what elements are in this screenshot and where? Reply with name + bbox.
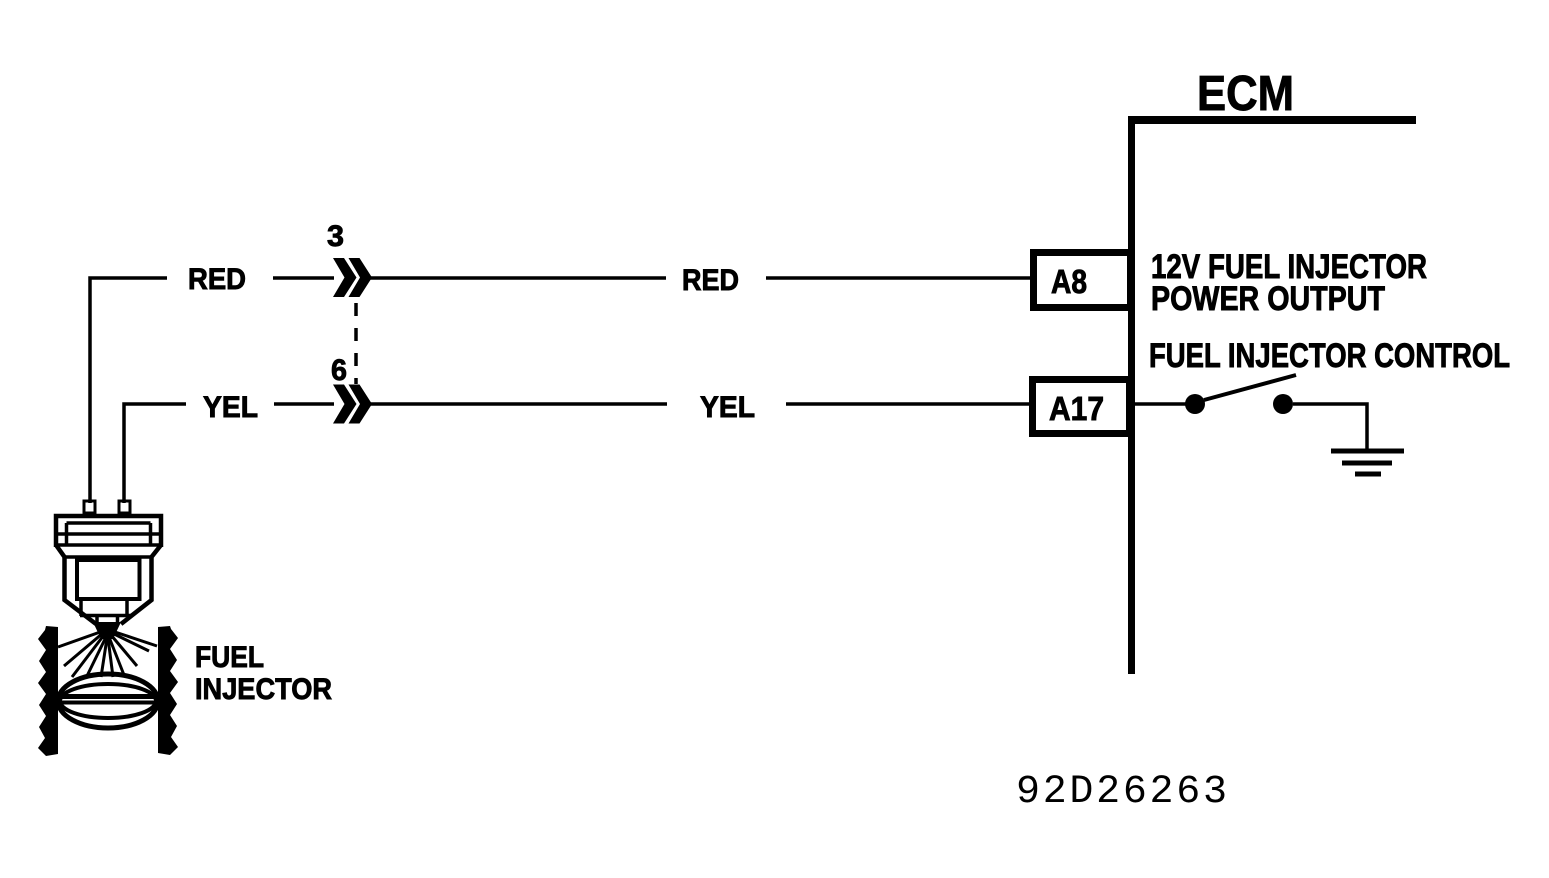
connector terminal 6 (chevrons) [331,354,372,424]
svg-text:INJECTOR: INJECTOR [195,673,332,706]
manifold wall right [158,626,178,755]
injector body outline right [121,545,161,624]
svg-text:RED: RED [682,264,739,297]
wire: YEL connector to mid label [368,402,667,406]
wire: RED to pin A8 [766,276,1033,280]
svg-text:POWER OUTPUT: POWER OUTPUT [1151,280,1385,318]
wire: YEL from injector to label [124,404,186,503]
connector terminal 3 (chevrons) [327,220,372,297]
switch (fuel injector driver) [1185,375,1296,414]
svg-text:ECM: ECM [1197,67,1294,121]
wire: RED connector to mid label [368,276,666,280]
ground [1331,451,1404,474]
injector nozzle [80,600,131,624]
spray rays [58,631,157,678]
connector pin A17 [1033,380,1130,434]
wire: YEL to pin A17 [786,402,1032,406]
svg-text:A8: A8 [1051,263,1087,300]
fuel injector [38,501,178,756]
injector tip [93,622,121,639]
svg-text:A17: A17 [1049,390,1104,427]
spray pool (lens) [58,674,158,728]
svg-text:RED: RED [188,263,246,296]
label 12V FUEL INJECTOR POWER OUTPUT [1151,248,1427,318]
dashed tie line between connector terminals [354,303,358,384]
injector cap outline [56,516,161,547]
injector pin terminals [84,501,95,513]
wire: RED label to connector [273,276,334,280]
svg-text:3: 3 [327,220,344,253]
injector body shoulder [64,555,152,559]
wire: A17 to switch [1133,402,1186,406]
wire: RED from injector to label [90,278,167,503]
svg-text:FUEL INJECTOR CONTROL: FUEL INJECTOR CONTROL [1149,337,1510,375]
svg-text:YEL: YEL [700,391,755,424]
wire: YEL label to connector [274,402,334,406]
connector pin A8 [1034,253,1131,308]
wire: switch to ground [1293,404,1367,451]
injector body inner rect [77,560,140,599]
svg-text:YEL: YEL [203,391,258,424]
ECM module boundary [1128,116,1416,674]
injector cap inner lines [54,523,163,545]
svg-text:FUEL: FUEL [195,641,264,674]
svg-text:6: 6 [331,354,347,387]
svg-text:92D26263: 92D26263 [1016,770,1227,815]
injector body outline left [56,545,96,624]
label FUEL INJECTOR [195,641,332,706]
manifold wall left [38,626,58,756]
